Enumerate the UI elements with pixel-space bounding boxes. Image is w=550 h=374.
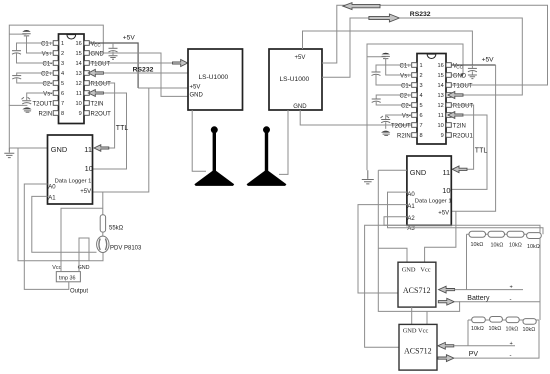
- svg-text:Vs+: Vs+: [400, 73, 411, 79]
- arrow ACS712 #2 out: [438, 355, 454, 362]
- svg-text:10kΩ: 10kΩ: [509, 242, 522, 248]
- wire GND pin15 to LS-U1000 #1: [89, 53, 188, 96]
- U1 left pin labels: [33, 41, 53, 117]
- op-amp U1 body (MAX232): [59, 34, 85, 124]
- wire TX loop (U2 T1OUT to LS2): [322, 5, 548, 85]
- U1 pins right 16-9: [84, 41, 89, 116]
- wire GND feed to ACS712 #1: [378, 248, 407, 262]
- resistor R2 10k: [488, 231, 505, 237]
- antenna 2 wire: [279, 110, 288, 174]
- svg-text:LS-U1000: LS-U1000: [280, 76, 310, 83]
- svg-text:Battery: Battery: [467, 295, 490, 302]
- wire divider 2 left leg to PV +: [467, 320, 469, 346]
- U2 pins right 16-9: [446, 63, 451, 138]
- arrow ACS712 #1 in: [439, 286, 455, 293]
- svg-text:R2IN: R2IN: [39, 111, 53, 117]
- svg-text:R1OUT: R1OUT: [453, 103, 474, 109]
- svg-text:15: 15: [75, 51, 81, 57]
- +5V label (U1): [123, 35, 136, 42]
- RS232 label (left): [133, 67, 154, 74]
- svg-text:PDV P8103: PDV P8103: [110, 245, 142, 251]
- svg-text:-: -: [510, 353, 512, 359]
- svg-text:5: 5: [61, 81, 64, 87]
- svg-text:ACS712: ACS712: [403, 286, 431, 295]
- ground below C5: [109, 56, 118, 60]
- capacitor C5 (Vcc decoupling): [109, 43, 118, 55]
- U1 pins left 1-8: [53, 41, 58, 116]
- svg-text:GND Vcc: GND Vcc: [402, 266, 431, 273]
- svg-text:11: 11: [438, 113, 444, 119]
- svg-text:16: 16: [75, 41, 81, 47]
- svg-text:Output: Output: [70, 289, 88, 295]
- wire A3 to ACS712 #2 output: [365, 225, 407, 347]
- svg-text:10kΩ: 10kΩ: [471, 326, 484, 332]
- wire ACS712 #1 bottom to ACS712 #2 Vcc feed: [411, 307, 413, 324]
- wire R1IN from LS-U1000 #1: [104, 72, 189, 74]
- Battery label: [467, 295, 490, 302]
- svg-text:+5V: +5V: [190, 84, 201, 90]
- svg-text:Vcc: Vcc: [52, 265, 61, 271]
- tmp36 Vcc label: [52, 265, 61, 271]
- ground below C10: [468, 75, 477, 79]
- wire GND frame around U1: [9, 25, 103, 148]
- PDV P8103 label: [110, 245, 142, 251]
- svg-text:GND: GND: [51, 145, 67, 154]
- arrow R1IN pin13: [88, 69, 103, 76]
- wire +5V rail down to DL2: [451, 65, 495, 211]
- TTL label (left): [116, 125, 129, 132]
- svg-text:+: +: [510, 341, 513, 347]
- svg-text:+5V: +5V: [482, 57, 495, 64]
- resistor R6 10k: [472, 317, 486, 323]
- svg-text:+5V: +5V: [80, 189, 91, 195]
- +5V label (U2): [482, 57, 495, 64]
- wire battery - return to divider: [454, 234, 540, 302]
- svg-text:T2IN: T2IN: [91, 101, 104, 107]
- svg-text:GND: GND: [410, 168, 426, 177]
- svg-text:10kΩ: 10kΩ: [471, 242, 484, 248]
- antenna 2: [247, 126, 287, 186]
- svg-text:GND: GND: [91, 51, 105, 57]
- U2 left pin labels: [391, 63, 411, 139]
- wire RX loop (LS2 to U2 R1IN): [322, 18, 369, 77]
- svg-text:C2+: C2+: [41, 71, 53, 77]
- svg-text:T1OUT: T1OUT: [91, 61, 111, 67]
- arrow RS232 right: [369, 14, 400, 22]
- svg-text:+: +: [510, 285, 513, 291]
- svg-text:7: 7: [61, 101, 64, 107]
- U2 pins left 1-8: [412, 63, 417, 138]
- wire T1OUT pin14: [89, 62, 172, 64]
- wire GND drop to sensor rail: [18, 148, 103, 261]
- svg-text:10: 10: [437, 123, 443, 129]
- battery plus mark: [510, 285, 513, 291]
- svg-text:C1-: C1-: [401, 83, 411, 89]
- svg-text:LS-U1000: LS-U1000: [199, 74, 229, 81]
- arrow into DL1 pin 11: [94, 145, 109, 152]
- wire PV +: [454, 345, 515, 347]
- svg-text:10kΩ: 10kΩ: [523, 327, 536, 333]
- resistor R4 10k: [527, 233, 542, 239]
- wire GND rail down to ACS712 area: [378, 170, 459, 311]
- ground symbol left of DL1: [4, 148, 14, 158]
- resistor R9 10k: [523, 319, 536, 325]
- svg-text:TTL: TTL: [475, 148, 488, 155]
- PV label: [469, 351, 479, 358]
- wire Vcc pin16 to +5V rail: [89, 43, 138, 88]
- svg-text:T2OUT: T2OUT: [33, 101, 53, 107]
- svg-text:12: 12: [437, 103, 443, 109]
- battery minus mark: [510, 297, 512, 303]
- svg-text:9: 9: [441, 133, 444, 139]
- LS-U1000 #2 labels: [280, 55, 310, 110]
- current sensor ACS712 #2: [399, 324, 437, 370]
- Data Logger 1 (right) box: [407, 156, 451, 225]
- capacitor C9 (U2 Vs- to GND): [381, 115, 412, 136]
- wire Vcc pin16 (U2) to +5V rail: [451, 64, 495, 66]
- tmp36 GND label: [78, 265, 90, 271]
- arrow RS232 left: [343, 3, 380, 10]
- 55kOhm label: [109, 225, 124, 231]
- svg-text:10kΩ: 10kΩ: [489, 326, 502, 332]
- wire T1OUT pin14 (U2) joins TX loop: [451, 84, 547, 86]
- antenna 1: [194, 126, 234, 186]
- svg-text:10kΩ: 10kΩ: [506, 327, 519, 333]
- svg-text:14: 14: [75, 61, 81, 67]
- wire RX continuation: [399, 18, 522, 95]
- svg-text:Vs-: Vs-: [43, 91, 52, 97]
- antenna 1 wire: [192, 110, 206, 171]
- op-amp U2 body (MAX232): [417, 54, 446, 145]
- wire ACS712 #2 Vcc feed: [426, 311, 428, 324]
- arrow R1IN pin13 (U2): [448, 92, 463, 99]
- svg-text:14: 14: [437, 83, 443, 89]
- svg-text:-: -: [510, 297, 512, 303]
- wire T1IN from DL2 pin 10: [451, 115, 487, 189]
- svg-text:12: 12: [75, 81, 81, 87]
- svg-text:A0: A0: [48, 185, 56, 191]
- svg-text:11: 11: [443, 168, 451, 177]
- PV plus mark: [510, 341, 513, 347]
- svg-text:+5V: +5V: [295, 55, 306, 61]
- LS-U1000 #1 labels: [190, 74, 229, 98]
- divider network 2 wire: [468, 319, 539, 321]
- wire T1IN from DL1 pin 10: [93, 93, 127, 169]
- svg-text:Data Logger 1: Data Logger 1: [55, 179, 92, 185]
- svg-text:A0: A0: [407, 192, 415, 198]
- svg-text:TTL: TTL: [116, 125, 129, 132]
- Data Logger 1 (left) box: [48, 135, 93, 204]
- wire A2 to PV divider: [384, 217, 540, 320]
- svg-text:Vs+: Vs+: [42, 51, 53, 57]
- wire tmp36 Vcc to +5V rail: [61, 208, 103, 271]
- wire +5V branch to ACS712 #1 Vcc: [425, 211, 456, 262]
- svg-text:PV: PV: [469, 351, 479, 358]
- svg-text:10kΩ: 10kΩ: [527, 244, 540, 250]
- capacitor C4 (Vs- to GND): [9, 93, 53, 112]
- svg-text:8: 8: [420, 133, 423, 139]
- svg-text:R2OU1: R2OU1: [453, 133, 474, 139]
- 10k labels network 2: [471, 326, 535, 333]
- arrow ACS712 #1 out: [438, 298, 454, 305]
- svg-text:3: 3: [420, 83, 423, 89]
- capacitor C6 (U2 C1+/C1-): [372, 65, 412, 85]
- svg-text:R1OUT: R1OUT: [91, 81, 112, 87]
- LS-U1000 #2 box: [269, 49, 322, 110]
- capacitor C2 (between pin4 C2+ and pin5 C2-): [12, 73, 53, 83]
- svg-text:GND: GND: [453, 73, 467, 79]
- DL1 labels: [48, 145, 93, 202]
- resistor R7 10k: [490, 317, 503, 323]
- wire LS2 GND to U2 T2OUT: [300, 110, 412, 125]
- capacitor C7 (U2 C2+/C2-): [372, 95, 412, 105]
- U2 right pin labels: [453, 63, 474, 139]
- wire battery +: [455, 289, 523, 291]
- svg-text:2: 2: [61, 51, 64, 57]
- photodiode PDV P8103: [97, 236, 109, 252]
- svg-text:RS232: RS232: [410, 11, 431, 18]
- svg-text:C2-: C2-: [401, 103, 411, 109]
- svg-text:1: 1: [420, 63, 423, 69]
- capacitor C1 (between pin1 C1+ and pin3 C1-): [12, 43, 53, 63]
- U2 pin numbers: [420, 63, 444, 139]
- svg-text:C2+: C2+: [400, 93, 412, 99]
- svg-text:C1-: C1-: [43, 61, 53, 67]
- wire PV - return to divider: [454, 320, 539, 358]
- svg-text:Data Logger 1: Data Logger 1: [415, 199, 452, 205]
- svg-text:T2OUT: T2OUT: [391, 123, 411, 129]
- wire GND to Data Logger 1: [9, 147, 47, 149]
- resistor R3 10k: [507, 231, 524, 237]
- svg-text:+5V: +5V: [438, 211, 449, 217]
- svg-text:9: 9: [79, 111, 82, 117]
- wire DL2 GND: [378, 169, 407, 171]
- wire tmp36 Output to A0: [24, 184, 69, 289]
- svg-text:R2IN: R2IN: [397, 133, 411, 139]
- wire R1OUT pin12 to DL1 pin 11: [89, 83, 114, 148]
- svg-text:ACS712: ACS712: [404, 347, 432, 356]
- svg-text:5: 5: [420, 103, 423, 109]
- wire R1OUT pin12 (U2) to DL2 pin 11: [451, 105, 473, 169]
- svg-text:T1OUT: T1OUT: [453, 83, 473, 89]
- arrow T1IN pin11 (U2): [448, 112, 463, 119]
- arrow ACS712 #2 in: [438, 342, 454, 349]
- svg-text:GND: GND: [293, 104, 307, 110]
- svg-text:11: 11: [76, 91, 82, 97]
- svg-text:GND: GND: [190, 93, 204, 99]
- svg-text:3: 3: [61, 61, 64, 67]
- Output label: [70, 289, 88, 295]
- svg-text:13: 13: [75, 71, 81, 77]
- svg-text:R2OUT: R2OUT: [91, 111, 112, 117]
- svg-text:A1: A1: [407, 204, 415, 210]
- U1 pin numbers: [61, 41, 82, 117]
- svg-text:6: 6: [420, 113, 423, 119]
- LS-U1000 #1 box: [188, 49, 243, 110]
- svg-text:C1+: C1+: [41, 41, 53, 47]
- svg-text:55kΩ: 55kΩ: [109, 225, 124, 231]
- svg-text:11: 11: [84, 145, 92, 154]
- svg-text:Vs-: Vs-: [402, 113, 411, 119]
- tmp 36 sensor: [56, 272, 80, 282]
- ground symbol at DL2: [362, 170, 374, 184]
- wire A1 to ACS712 #1 output: [358, 205, 407, 293]
- svg-text:GND Vcc: GND Vcc: [403, 328, 429, 335]
- svg-text:T2IN: T2IN: [453, 123, 466, 129]
- svg-text:13: 13: [437, 93, 443, 99]
- current sensor ACS712 #1: [398, 262, 436, 307]
- svg-text:16: 16: [437, 63, 443, 69]
- wire A0 to battery divider: [388, 192, 544, 234]
- wire A1 to photodiode: [32, 196, 97, 252]
- wire GND frame around U2: [367, 44, 463, 170]
- svg-text:8: 8: [61, 111, 64, 117]
- svg-text:7: 7: [420, 123, 423, 129]
- svg-text:C1+: C1+: [400, 63, 412, 69]
- arrow T1IN pin11 (U1): [88, 90, 103, 97]
- wire +5V rail to LS-U1000 #1: [138, 87, 188, 89]
- svg-text:tmp 36: tmp 36: [59, 275, 75, 281]
- 10k labels network 1: [471, 242, 540, 250]
- 55k resistor R5: [100, 192, 105, 236]
- svg-text:A3: A3: [407, 226, 415, 232]
- U1 right pin labels: [91, 41, 112, 117]
- wire LS2 +5V feed: [303, 31, 473, 65]
- svg-text:A2: A2: [407, 216, 415, 222]
- capacitor C3 (Vs+ to GND, polarized): [9, 30, 53, 53]
- DL2 labels: [407, 168, 451, 232]
- arrow T1OUT to LS-U1000 #1: [173, 60, 188, 67]
- capacitor C10 (U2 Vcc decoupling): [468, 65, 477, 75]
- TTL label (right): [475, 148, 488, 155]
- PV minus mark: [510, 353, 512, 359]
- wire divider 1 left leg to battery +: [466, 234, 468, 289]
- resistor R1 10k: [469, 231, 486, 237]
- svg-text:4: 4: [61, 71, 64, 77]
- svg-text:+5V: +5V: [123, 35, 136, 42]
- wire GND pin15 (U2): [451, 74, 463, 76]
- svg-text:10: 10: [85, 164, 93, 173]
- svg-text:15: 15: [437, 73, 443, 79]
- RS232 label (top): [410, 11, 431, 18]
- resistor R8 10k: [506, 317, 519, 323]
- svg-text:10: 10: [442, 186, 450, 195]
- svg-text:6: 6: [61, 91, 64, 97]
- wire +5V branch down to Data Logger 1: [93, 88, 149, 192]
- svg-text:10kΩ: 10kΩ: [491, 242, 504, 248]
- capacitor C8 (U2 Vs+ to GND, polarized): [367, 53, 412, 75]
- svg-text:C2-: C2-: [43, 81, 53, 87]
- arrow into DL2 pin 11: [452, 166, 467, 173]
- svg-text:2: 2: [420, 73, 423, 79]
- svg-text:10: 10: [75, 101, 81, 107]
- svg-text:4: 4: [420, 93, 423, 99]
- divider network 1 wire: [467, 233, 542, 235]
- svg-text:1: 1: [61, 41, 64, 47]
- svg-text:A1: A1: [48, 196, 56, 202]
- wire tmp36 GND loop: [79, 238, 89, 272]
